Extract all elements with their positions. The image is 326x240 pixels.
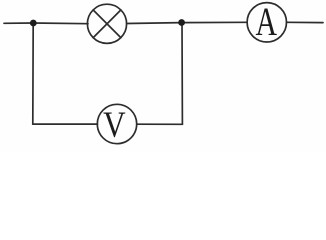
wire lamp to node2 — [127, 22, 182, 25]
wire left lead — [4, 22, 33, 24]
wire node2 to ammeter — [182, 21, 248, 23]
svg-text:V: V — [103, 105, 126, 146]
lamp L1 circle — [87, 4, 126, 43]
node junction dot 1 — [30, 20, 37, 27]
svg-text:A: A — [255, 0, 277, 44]
wire left branch vertical — [32, 23, 34, 124]
wire voltmeter to bottom right — [137, 123, 183, 125]
node junction dot 2 — [178, 19, 185, 26]
lamp L1 cross stroke 1 — [93, 10, 121, 38]
wire right branch vertical — [181, 23, 183, 125]
wire right lead — [287, 21, 324, 23]
wire bottom left to voltmeter — [33, 123, 98, 125]
wire node1 to lamp — [33, 22, 88, 25]
lamp L1 cross stroke 2 — [93, 10, 121, 38]
ammeter A1 circle — [247, 3, 286, 42]
voltmeter V1 circle — [97, 104, 136, 143]
